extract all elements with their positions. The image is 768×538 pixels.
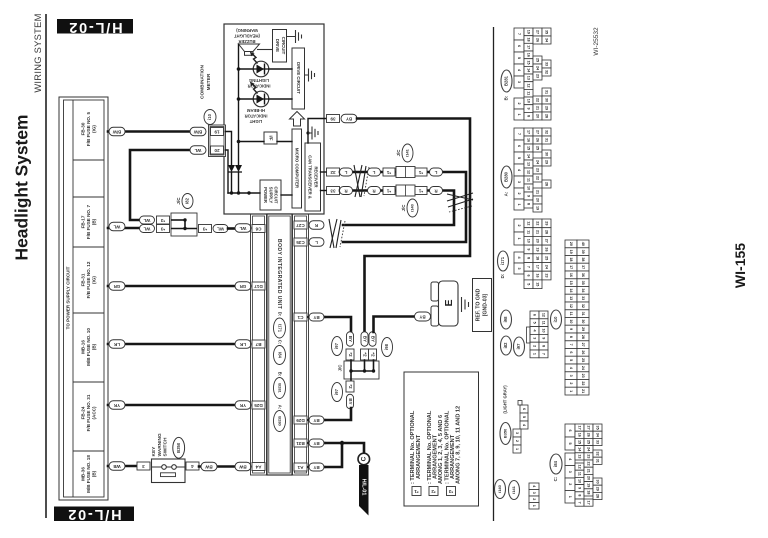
svg-text:39: 39 [330, 117, 336, 122]
meter pin 33 [321, 187, 340, 195]
meter pin 39 [327, 115, 340, 123]
svg-text:LIGHTING: LIGHTING [249, 78, 269, 83]
svg-text:B31: B31 [296, 441, 305, 446]
svg-text:SUPPLY: SUPPLY [268, 187, 273, 204]
svg-text:9: 9 [527, 195, 531, 197]
wire color label YR (fuse side) [109, 401, 125, 410]
svg-text:2: 2 [532, 498, 536, 500]
svg-text:23: 23 [536, 74, 540, 78]
svg-text:i10: i10 [207, 113, 212, 119]
svg-text:i141: i141 [405, 148, 410, 157]
body integrated unit main box [267, 214, 292, 475]
svg-text:WL: WL [239, 226, 246, 231]
svg-text:D29: D29 [296, 418, 305, 423]
svg-text:23: 23 [587, 454, 591, 458]
svg-text:F/B FUSE NO. 31: F/B FUSE NO. 31 [86, 394, 91, 431]
ground (drive circuit 2) [305, 69, 315, 82]
svg-text:12: 12 [527, 221, 531, 225]
svg-text:12: 12 [542, 313, 546, 317]
svg-text:3: 3 [517, 81, 521, 83]
twisted pair symbol (vertical run) [447, 193, 473, 212]
svg-text:C6: C6 [255, 227, 261, 232]
svg-text:20: 20 [536, 239, 540, 243]
label B: (B281) [501, 70, 512, 100]
svg-text:28: 28 [545, 230, 549, 234]
svg-text:6: 6 [517, 45, 521, 47]
svg-text:D:: D: [277, 312, 282, 316]
svg-text:10: 10 [569, 319, 573, 323]
svg-text:29: 29 [545, 160, 549, 164]
svg-text:16: 16 [578, 433, 582, 437]
svg-text:BY: BY [419, 315, 425, 320]
label HI-BEAM INDICATOR LIGHT [245, 108, 268, 124]
wire BY stack C to ground E [374, 317, 415, 333]
label i98 [382, 338, 393, 357]
wire BY BIU B31 to connector C [309, 441, 365, 453]
svg-text:(B): (B) [91, 470, 96, 477]
connector grid B350 (key warning switch) [513, 401, 528, 454]
svg-text:19: 19 [214, 130, 220, 135]
svg-text:H/L-02: H/L-02 [67, 19, 122, 35]
svg-text:1: 1 [517, 237, 521, 239]
wire color label YR (BIU side) [235, 401, 251, 410]
svg-text:*2: *2 [348, 352, 353, 357]
svg-text:21: 21 [536, 230, 540, 234]
svg-text:9: 9 [569, 328, 573, 330]
svg-text:WI-155: WI-155 [732, 243, 748, 288]
wire color label WL (BIU side) [235, 224, 251, 233]
svg-text:12: 12 [578, 465, 582, 469]
svg-text:31: 31 [545, 90, 549, 94]
svg-text:7: 7 [542, 353, 546, 355]
svg-text:WL: WL [194, 148, 201, 153]
svg-text:BY: BY [348, 336, 353, 342]
meter internal wires LED to drive circuit [269, 69, 292, 99]
svg-text:AMONG 1, 2, 3, 4, 5 AND 6: AMONG 1, 2, 3, 4, 5 AND 6 [438, 415, 444, 484]
svg-text:17: 17 [578, 426, 582, 430]
fuse FB-30 F/B FUSE NO. 5 (IG) [80, 111, 96, 146]
svg-text:C:: C: [277, 340, 282, 344]
BIU left pin D17 [252, 282, 265, 290]
wire color label GR (fuse side) [109, 282, 125, 291]
wire L meter pin 32 to BIU C35 (CAN high) [340, 172, 466, 242]
wire color label BY (A1) [309, 463, 324, 471]
key warning switch pin 3 [137, 462, 150, 470]
svg-text:16: 16 [536, 273, 540, 277]
svg-text:21: 21 [581, 389, 585, 393]
wire color label WL (meter pin 20) [190, 146, 206, 155]
svg-text:B350: B350 [503, 428, 508, 438]
connector grid i10 (combination meter) [565, 240, 589, 395]
wire color label WL (fuse NO.7) [109, 222, 125, 231]
svg-text:25: 25 [536, 146, 540, 150]
svg-text:[GND-03]: [GND-03] [483, 293, 489, 316]
J/C BY junction stack D [346, 381, 354, 409]
svg-text:CAN TRANSCEIVER &: CAN TRANSCEIVER & [308, 155, 313, 198]
wire WB fuse NO.18 to key warning switch [108, 465, 136, 468]
svg-text:i171: i171 [277, 324, 282, 333]
svg-text:D:: D: [500, 273, 505, 278]
svg-text:33: 33 [581, 296, 585, 300]
svg-text:20: 20 [536, 198, 540, 202]
svg-text:J/C: J/C [401, 204, 406, 212]
svg-text:22: 22 [581, 381, 585, 385]
svg-text:AMONG 7, 8, 9, 10, 11 AND 12: AMONG 7, 8, 9, 10, 11 AND 12 [455, 406, 461, 484]
svg-text:B280: B280 [277, 416, 282, 426]
svg-text:BW: BW [204, 465, 212, 470]
svg-text:M/B FUSE NO. 18: M/B FUSE NO. 18 [86, 455, 91, 493]
svg-text:i97: i97 [334, 388, 339, 394]
label i97 (upper) [332, 337, 343, 356]
J/C BY junction stack B [361, 332, 369, 360]
wire color label WB [109, 462, 125, 471]
svg-text:*2: *2 [363, 352, 368, 357]
BIU right pin B31 [294, 439, 307, 447]
svg-text:11: 11 [527, 230, 531, 234]
svg-text:26: 26 [545, 247, 549, 251]
svg-text:25: 25 [581, 358, 585, 362]
meter internal wire I/F to micro computer [277, 141, 292, 143]
svg-text:C:: C: [553, 476, 558, 481]
svg-text:FB-24: FB-24 [80, 406, 85, 419]
svg-text:1: 1 [517, 203, 521, 205]
svg-text:J/C: J/C [338, 364, 343, 372]
label i10 (grid) [551, 310, 562, 329]
svg-text:B281: B281 [504, 75, 509, 86]
wire color label B/W (meter side) [190, 127, 206, 136]
label WIRING SYSTEM [33, 13, 43, 92]
wire color label BY (C1) [309, 313, 324, 321]
svg-text:5: 5 [533, 322, 537, 324]
svg-text:DRIVE CIRCUIT: DRIVE CIRCUIT [296, 62, 301, 94]
ground (meter internal) [308, 127, 318, 140]
svg-text:WIRING SYSTEM: WIRING SYSTEM [33, 13, 43, 92]
label C: (i84) [550, 454, 562, 481]
legend *2 terminal note [427, 410, 444, 495]
svg-text:MB-36: MB-36 [80, 467, 85, 481]
svg-text:D25: D25 [254, 403, 263, 408]
wire color label L (BIU C35) [309, 238, 324, 247]
svg-text:20: 20 [587, 476, 591, 480]
svg-text:LR: LR [239, 342, 246, 347]
svg-text:3: 3 [517, 181, 521, 183]
svg-text:BODY INTEGRATED UNIT: BODY INTEGRATED UNIT [276, 239, 282, 310]
svg-text:20: 20 [536, 114, 540, 118]
J/C i140 row (R) [368, 185, 443, 196]
wire color label B/W (fuse side) [109, 127, 125, 136]
svg-text:17: 17 [587, 501, 591, 505]
svg-text:18: 18 [587, 490, 591, 494]
svg-text:31: 31 [545, 138, 549, 142]
diode D1 (meter) [228, 165, 235, 172]
svg-text:i84: i84 [277, 352, 282, 358]
svg-text:11: 11 [527, 91, 531, 95]
label J/C (i141) [396, 144, 413, 162]
right border line [493, 27, 495, 521]
svg-text:*1: *1 [418, 189, 423, 194]
svg-text:WARNING: WARNING [157, 433, 163, 456]
svg-text:37: 37 [581, 265, 585, 269]
svg-text:13: 13 [527, 162, 531, 166]
svg-text:23: 23 [581, 374, 585, 378]
wire R meter pin 33 to BIU C27 (CAN low) [340, 191, 454, 226]
wire BY BIU A1 to junction [309, 443, 343, 467]
meter internal wire pin 39 to CAN [306, 119, 326, 144]
svg-text:31: 31 [581, 312, 585, 316]
svg-text:35: 35 [545, 30, 549, 34]
svg-text:*3: *3 [160, 227, 165, 232]
buzzer (headlight warning) symbol [239, 44, 273, 55]
svg-text:16: 16 [527, 53, 531, 57]
svg-text:27: 27 [536, 30, 540, 34]
svg-text:1: 1 [515, 448, 519, 450]
meter internal wire pin 19 branch [226, 132, 232, 194]
signal arrow micro computer to indicators [290, 112, 305, 127]
label A: (B280) [501, 166, 512, 196]
svg-text:i82: i82 [503, 342, 508, 348]
svg-text:2: 2 [517, 102, 521, 104]
label J/C (BY junction) [338, 364, 343, 372]
svg-text:19: 19 [569, 250, 573, 254]
wire color label BW (switch side) [201, 462, 217, 471]
svg-text:25: 25 [545, 256, 549, 260]
svg-text:10: 10 [527, 239, 531, 243]
svg-text:8: 8 [527, 115, 531, 117]
svg-text:i98: i98 [503, 316, 508, 322]
svg-text:15: 15 [578, 440, 582, 444]
svg-text:*2: *2 [348, 384, 353, 389]
wire color label LR (fuse side) [109, 340, 125, 349]
wire color label GR (BIU side) [235, 282, 251, 291]
wire BY meter pin 39 to J/C i97 [357, 119, 470, 333]
svg-text:C: C [361, 456, 368, 461]
svg-text:i98: i98 [384, 343, 389, 349]
svg-text:C35: C35 [296, 240, 305, 245]
svg-text:27: 27 [536, 130, 540, 134]
svg-text:18: 18 [536, 256, 540, 260]
svg-text:i140: i140 [410, 203, 415, 212]
legend notes box [404, 372, 479, 506]
svg-text:39: 39 [581, 250, 585, 254]
svg-text:21: 21 [587, 469, 591, 473]
svg-text:17: 17 [569, 265, 573, 269]
svg-text:33: 33 [330, 189, 336, 194]
wire WL meter pin 20 to J/C i82 [130, 150, 190, 220]
svg-text:3: 3 [515, 432, 519, 434]
connector grid D (i171) [514, 219, 551, 289]
svg-text:B280: B280 [504, 171, 509, 182]
svg-text:9: 9 [542, 337, 546, 339]
svg-text:28: 28 [545, 182, 549, 186]
svg-text:13: 13 [527, 76, 531, 80]
label COMBINATION METER (i10) [199, 64, 216, 124]
svg-text:FB-17: FB-17 [80, 215, 85, 228]
svg-text:9: 9 [578, 487, 582, 489]
joint connector J/C i82 box [171, 213, 197, 236]
svg-text:ARRANGEMENT: ARRANGEMENT [416, 434, 422, 479]
svg-text:B281: B281 [277, 383, 282, 393]
diagram tag H/L-02 bottom [54, 506, 134, 522]
svg-text:9: 9 [527, 248, 531, 250]
svg-text:19: 19 [587, 483, 591, 487]
svg-text:L: L [344, 170, 347, 175]
svg-text:WI-25532: WI-25532 [593, 27, 600, 56]
BIU connector oval A (B280) [274, 405, 286, 432]
drive circuit box 2 [292, 48, 305, 109]
svg-text:(B): (B) [91, 218, 96, 225]
svg-text:CIRCUIT: CIRCUIT [273, 187, 278, 204]
fuse table cell dividers [73, 160, 104, 451]
svg-text:*1: *1 [414, 489, 419, 494]
svg-text:LR: LR [113, 342, 120, 347]
svg-text:35: 35 [596, 426, 600, 430]
svg-text:17: 17 [527, 45, 531, 49]
svg-text:POWER: POWER [263, 187, 268, 203]
svg-text:30: 30 [545, 98, 549, 102]
connector grid C (i84) [565, 424, 602, 506]
label TO POWER SUPPLY CIRCUIT [65, 266, 70, 329]
svg-text:10: 10 [527, 99, 531, 103]
svg-text:WL: WL [143, 227, 150, 232]
wire color label LR (BIU side) [235, 340, 251, 349]
svg-text:2: 2 [533, 345, 537, 347]
svg-text:7: 7 [517, 133, 521, 135]
svg-text:23: 23 [545, 273, 549, 277]
svg-text:9: 9 [527, 108, 531, 110]
svg-text:19: 19 [527, 30, 531, 34]
BIU connector oval B (B281) [274, 372, 286, 399]
svg-text:GR: GR [113, 284, 120, 289]
BIU connector oval D (i171) [274, 312, 286, 338]
svg-text:5: 5 [527, 283, 531, 285]
svg-text:30: 30 [596, 480, 600, 484]
svg-text:17: 17 [536, 265, 540, 269]
svg-text:12: 12 [569, 304, 573, 308]
svg-text:B7: B7 [255, 342, 261, 347]
drive circuit box 1 [273, 30, 287, 63]
svg-text:3: 3 [533, 337, 537, 339]
page header rule (left border line) [45, 14, 47, 518]
svg-text:25: 25 [587, 440, 591, 444]
svg-text:L: L [315, 240, 318, 245]
wire color label BW (BIU side) [235, 462, 251, 471]
wire color label BY (D29) [309, 416, 324, 424]
BIU connector oval C (i84) [274, 340, 286, 365]
svg-text:(IG): (IG) [91, 276, 96, 284]
meter internal bus to power supply circuit [228, 191, 260, 194]
connector grid A (B280) [514, 128, 551, 212]
svg-text:BUZZER: BUZZER [239, 39, 256, 44]
BIU right pin C1 [294, 313, 307, 321]
svg-text:FB-30: FB-30 [80, 122, 85, 135]
svg-text:F/B FUSE NO. 5: F/B FUSE NO. 5 [86, 111, 91, 146]
diagram tag H/L-02 top [57, 19, 133, 35]
power supply table outer box [59, 97, 108, 500]
svg-text:32: 32 [581, 304, 585, 308]
svg-text:6: 6 [569, 351, 573, 353]
svg-text:35: 35 [581, 281, 585, 285]
svg-text:7: 7 [578, 502, 582, 504]
svg-text:*3: *3 [448, 489, 453, 494]
svg-text:8: 8 [527, 257, 531, 259]
svg-text:i140: i140 [497, 484, 502, 493]
label B350 (LIGHT GRAY) [500, 385, 511, 445]
svg-text:23: 23 [536, 168, 540, 172]
wire B/W fuse NO.5 to combination meter pin 19 [108, 130, 190, 133]
svg-text:A4: A4 [255, 465, 261, 470]
svg-text:27: 27 [587, 426, 591, 430]
meter internal LED supply branch [237, 44, 264, 193]
svg-text:*2: *2 [431, 489, 436, 494]
wire color label BY (meter pin 39) [341, 114, 357, 123]
svg-text:*1: *1 [386, 170, 391, 175]
svg-text:17: 17 [527, 130, 531, 134]
svg-text:11: 11 [542, 321, 546, 325]
svg-text:20: 20 [569, 242, 573, 246]
body integrated unit connector strips [251, 214, 309, 475]
svg-text:WARNING): WARNING) [236, 28, 258, 33]
twisted pair symbol (meter side) [354, 165, 369, 197]
svg-text:F/B FUSE NO. 7: F/B FUSE NO. 7 [86, 204, 91, 239]
svg-text:3: 3 [569, 375, 573, 377]
svg-text:DRIVE: DRIVE [275, 39, 280, 52]
svg-text:29: 29 [545, 106, 549, 110]
label D: (i171) [498, 251, 509, 278]
svg-text:1: 1 [568, 496, 572, 498]
svg-text:7: 7 [569, 344, 573, 346]
svg-text:15: 15 [527, 146, 531, 150]
svg-text:B/W: B/W [193, 130, 202, 135]
twisted pair symbol (BIU side) [329, 219, 345, 248]
svg-text:COMBINATION: COMBINATION [199, 64, 205, 99]
svg-text:22: 22 [536, 221, 540, 225]
svg-text:BY: BY [363, 336, 368, 342]
svg-text:(ACC): (ACC) [91, 406, 96, 419]
svg-text:19: 19 [536, 206, 540, 210]
svg-text:LIGHT: LIGHT [249, 119, 262, 124]
svg-text:D17: D17 [254, 284, 263, 289]
svg-text:13: 13 [569, 296, 573, 300]
svg-text:YR: YR [239, 403, 246, 408]
svg-text:i97: i97 [334, 342, 339, 348]
svg-text:MICRO COMPUTER: MICRO COMPUTER [295, 148, 300, 189]
I/F interface box [264, 132, 277, 144]
svg-text:15: 15 [527, 60, 531, 64]
svg-text:8: 8 [527, 203, 531, 205]
combination meter box [224, 24, 324, 214]
svg-text:6: 6 [527, 275, 531, 277]
svg-text:26: 26 [536, 138, 540, 142]
wire color label BY (B31) [309, 439, 324, 447]
svg-text:(B): (B) [91, 343, 96, 350]
svg-text:METER: METER [206, 73, 212, 90]
svg-text:WL: WL [217, 227, 224, 232]
wire color label L (pin 32) [340, 168, 353, 176]
power supply circuit box [260, 180, 281, 210]
wire YR fuse NO.31 to BIU pin D25 [108, 404, 235, 407]
svg-text:6: 6 [522, 408, 526, 410]
fuse MB-16 M/B FUSE NO. 10 (B) [80, 328, 96, 366]
wire WL J/C i82 to BIU pin C6 [228, 227, 235, 230]
label BUZZER (HEADLIGHT WARNING) [234, 28, 260, 44]
node C connector circle [358, 453, 370, 465]
svg-text:MB-16: MB-16 [80, 340, 85, 354]
svg-text:i97: i97 [516, 343, 521, 349]
svg-text:A1: A1 [297, 465, 303, 470]
fuse FB-24 F/B FUSE NO. 31 (ACC) [80, 394, 96, 431]
svg-text:*1: *1 [386, 189, 391, 194]
svg-text:40: 40 [581, 242, 585, 246]
